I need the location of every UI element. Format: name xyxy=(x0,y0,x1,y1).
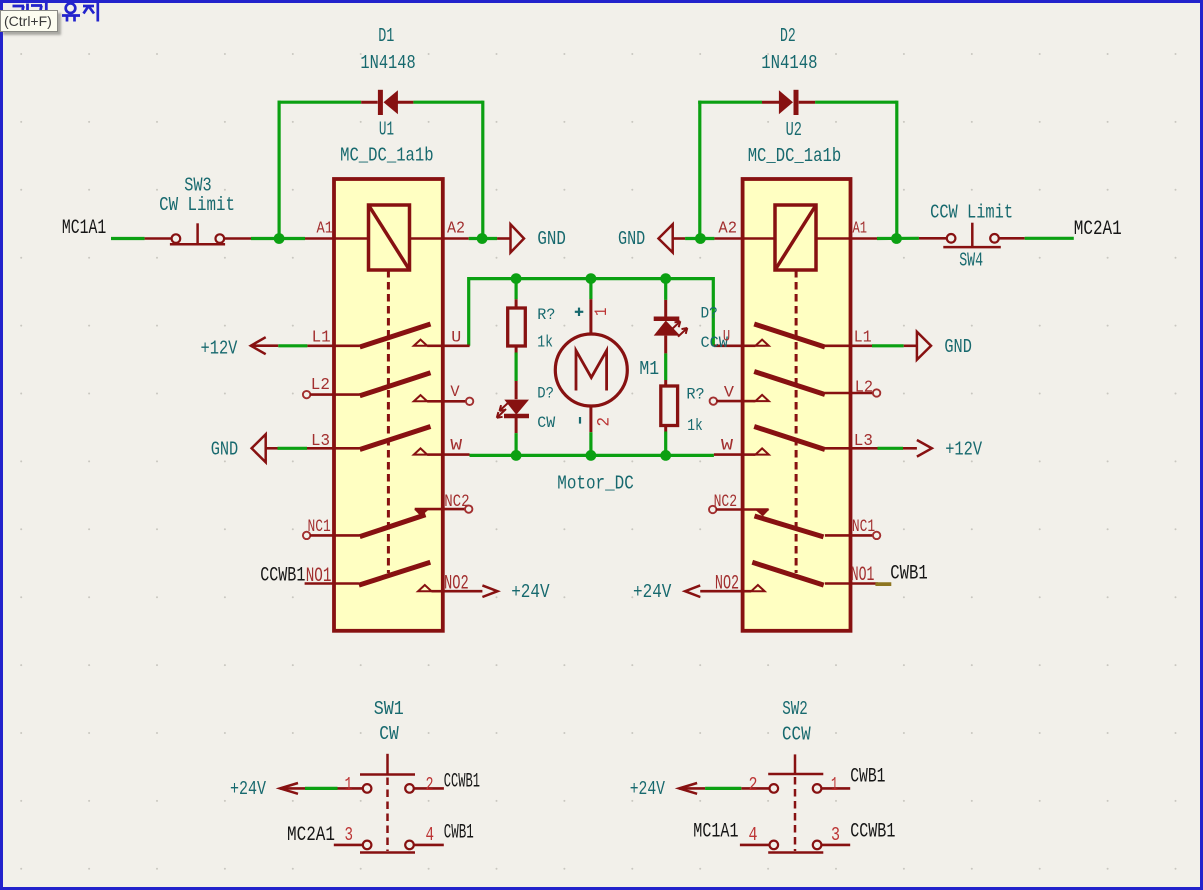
svg-text:1k: 1k xyxy=(687,417,703,436)
svg-text:2: 2 xyxy=(595,417,615,427)
svg-text:U1: U1 xyxy=(379,119,394,141)
svg-text:A2: A2 xyxy=(447,220,465,239)
svg-text:W: W xyxy=(450,437,463,455)
svg-text:Motor_DC: Motor_DC xyxy=(557,473,634,495)
svg-text:CCWB1: CCWB1 xyxy=(850,820,895,843)
svg-text:GND: GND xyxy=(944,336,972,358)
svg-text:SW4: SW4 xyxy=(959,249,983,271)
svg-text:L2: L2 xyxy=(855,378,873,397)
svg-text:+24V: +24V xyxy=(633,581,672,603)
svg-text:MC2A1: MC2A1 xyxy=(1074,218,1122,241)
svg-text:U: U xyxy=(723,328,730,346)
svg-text:A1: A1 xyxy=(853,220,868,239)
svg-text:NC1: NC1 xyxy=(308,517,331,537)
svg-text:+24V: +24V xyxy=(511,581,550,603)
svg-text:MC1A1: MC1A1 xyxy=(62,217,106,240)
svg-text:CWB1: CWB1 xyxy=(850,766,885,789)
svg-text:L3: L3 xyxy=(854,432,873,451)
svg-text:1: 1 xyxy=(345,774,353,796)
svg-text:4: 4 xyxy=(749,824,758,846)
svg-text:CCWB1: CCWB1 xyxy=(444,770,480,793)
svg-text:3: 3 xyxy=(345,824,354,846)
svg-text:L1: L1 xyxy=(854,328,872,347)
svg-text:GND: GND xyxy=(211,438,239,460)
svg-text:1: 1 xyxy=(831,774,838,796)
svg-text:+24V: +24V xyxy=(630,778,666,800)
svg-text:NO1: NO1 xyxy=(306,565,332,588)
svg-text:U2: U2 xyxy=(786,119,802,141)
svg-text:NO2: NO2 xyxy=(715,572,739,595)
svg-text:D2: D2 xyxy=(780,25,796,47)
svg-text:L3: L3 xyxy=(311,432,330,451)
svg-text:+12V: +12V xyxy=(945,438,982,460)
svg-text:1k: 1k xyxy=(537,334,553,353)
svg-text:CW Limit: CW Limit xyxy=(159,194,235,216)
svg-text:D1: D1 xyxy=(378,25,394,47)
svg-text:2: 2 xyxy=(749,774,758,796)
svg-text:1N4148: 1N4148 xyxy=(360,52,415,74)
svg-text:W: W xyxy=(721,437,734,455)
svg-text:MC_DC_1a1b: MC_DC_1a1b xyxy=(748,145,842,167)
svg-text:M1: M1 xyxy=(639,358,659,380)
svg-text:SW1: SW1 xyxy=(374,698,404,720)
svg-text:CW: CW xyxy=(379,723,399,745)
svg-text:MC_DC_1a1b: MC_DC_1a1b xyxy=(340,145,434,167)
svg-text:NC2: NC2 xyxy=(714,492,738,512)
svg-text:NO1: NO1 xyxy=(851,564,875,587)
svg-text:CCW Limit: CCW Limit xyxy=(930,202,1013,224)
svg-text:A1: A1 xyxy=(317,220,334,239)
svg-text:+24V: +24V xyxy=(230,778,266,800)
svg-text:MC1A1: MC1A1 xyxy=(693,820,738,843)
svg-text:SW2: SW2 xyxy=(782,698,808,720)
svg-text:NO2: NO2 xyxy=(444,572,469,595)
svg-text:V: V xyxy=(724,383,735,401)
svg-text:NC2: NC2 xyxy=(444,492,469,512)
svg-text:A2: A2 xyxy=(718,220,737,239)
svg-text:D?: D? xyxy=(701,305,718,323)
svg-text:MC2A1: MC2A1 xyxy=(287,824,335,847)
svg-text:CCWB1: CCWB1 xyxy=(260,565,305,588)
svg-text:GND: GND xyxy=(537,228,566,250)
svg-text:V: V xyxy=(450,383,460,401)
svg-text:NC1: NC1 xyxy=(852,517,875,537)
svg-text:CWB1: CWB1 xyxy=(890,563,928,586)
svg-text:2: 2 xyxy=(426,774,434,796)
svg-text:GND: GND xyxy=(618,228,645,250)
svg-text:R?: R? xyxy=(686,385,704,403)
svg-text:CWB1: CWB1 xyxy=(444,822,474,845)
svg-text:D?: D? xyxy=(537,385,554,403)
svg-text:CCW: CCW xyxy=(782,724,811,746)
svg-text:1: 1 xyxy=(592,308,612,317)
svg-text:L2: L2 xyxy=(311,376,330,395)
svg-text:CW: CW xyxy=(537,414,555,432)
svg-text:L1: L1 xyxy=(312,328,331,347)
svg-text:4: 4 xyxy=(426,824,435,846)
svg-text:3: 3 xyxy=(831,824,840,846)
svg-text:R?: R? xyxy=(537,306,555,324)
svg-text:U: U xyxy=(451,329,461,347)
svg-text:+12V: +12V xyxy=(201,338,238,360)
svg-text:1N4148: 1N4148 xyxy=(761,52,817,74)
